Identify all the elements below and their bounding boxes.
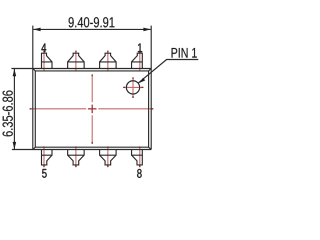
body inner top line	[35, 70, 148, 72]
pin 5 outline	[42, 150, 53, 165]
PIN 1 leader line	[138, 60, 198, 84]
pin 3 outline	[68, 53, 85, 68]
top dimension right arrowhead	[143, 28, 150, 32]
pin 2 centerline	[107, 51, 109, 72]
body horizontal centerline	[30, 108, 154, 110]
pin 7 outline	[100, 150, 117, 165]
left dimension top arrowhead	[13, 69, 17, 76]
left dimension bottom arrowhead	[13, 142, 17, 149]
pin 4 outline	[42, 53, 53, 68]
PIN 1 label	[172, 48, 197, 58]
top dimension line	[33, 28, 150, 30]
pin 1 centerline	[139, 51, 141, 72]
black outline group	[11, 26, 198, 165]
body corner chamfer bottom-right	[149, 147, 152, 149]
red centerlines group	[30, 51, 154, 168]
pin 6 outline	[68, 150, 85, 165]
body corner chamfer top-left	[33, 69, 36, 71]
body bottom edge with left extension line	[12, 149, 151, 151]
pin 5 centerline	[43, 146, 45, 167]
pin 1 outline	[132, 53, 143, 68]
body inner bottom line	[35, 146, 148, 148]
pin 2 outline	[100, 53, 117, 68]
top dimension text 9.40-9.91	[69, 17, 115, 27]
pin 4 number	[41, 44, 46, 53]
pin 1 number	[138, 44, 142, 53]
body vertical centerline	[91, 74, 93, 143]
left dimension text 6.35-6.86	[3, 91, 13, 137]
pin 4 centerline	[43, 51, 45, 72]
pin 8 outline	[132, 150, 143, 165]
body right edge with top extension line	[150, 26, 152, 150]
PIN 1 leader arrowhead	[140, 78, 146, 83]
body inner right line	[148, 71, 150, 147]
body corner chamfer top-right	[149, 69, 152, 71]
top dimension left arrowhead	[33, 28, 40, 32]
pin 7 centerline	[107, 146, 109, 167]
pin 8 centerline	[139, 146, 141, 167]
pin 8 number	[137, 169, 141, 178]
pin 6 centerline	[75, 146, 77, 167]
arrowheads	[13, 28, 151, 150]
pin1 circle horizontal crosshair	[123, 86, 143, 88]
pin 3 centerline	[75, 51, 77, 72]
left dimension line	[13, 69, 15, 149]
pin 1 indicator circle	[126, 81, 139, 94]
body corner chamfer bottom-left	[33, 147, 36, 149]
body top edge with left extension line	[11, 68, 151, 70]
body left edge with top extension line	[32, 26, 34, 150]
body inner left line	[34, 71, 36, 147]
pin1 circle vertical crosshair	[132, 77, 134, 98]
pin 5 number	[42, 169, 47, 178]
